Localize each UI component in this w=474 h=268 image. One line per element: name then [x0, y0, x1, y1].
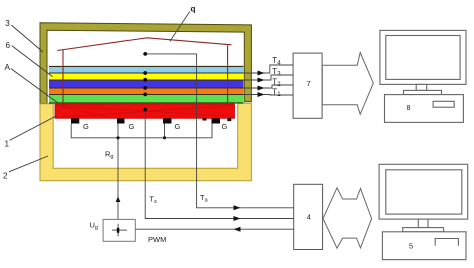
svg-text:G: G [129, 122, 135, 131]
svg-text:2: 2 [3, 172, 8, 181]
svg-text:q: q [191, 5, 196, 14]
svg-text:8: 8 [407, 103, 411, 112]
svg-text:3: 3 [5, 19, 10, 28]
svg-text:7: 7 [307, 79, 311, 88]
svg-text:6: 6 [6, 41, 11, 50]
svg-text:G: G [222, 122, 228, 131]
svg-text:G: G [83, 122, 89, 131]
svg-text:A: A [5, 63, 11, 72]
svg-text:5: 5 [409, 242, 413, 251]
svg-text:1: 1 [5, 140, 10, 149]
svg-text:G: G [175, 122, 181, 131]
svg-text:PWM: PWM [148, 235, 166, 244]
svg-text:4: 4 [307, 213, 311, 222]
